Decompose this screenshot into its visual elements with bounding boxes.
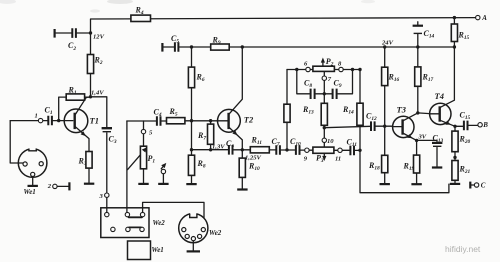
svg-text:3V: 3V	[418, 134, 427, 141]
svg-text:1,25V: 1,25V	[245, 155, 262, 162]
svg-text:3: 3	[99, 193, 104, 200]
svg-text:T4: T4	[435, 91, 444, 101]
svg-text:T2: T2	[244, 115, 254, 125]
svg-text:12V: 12V	[93, 34, 105, 41]
svg-text:T1: T1	[90, 116, 99, 126]
svg-text:We1: We1	[24, 188, 36, 196]
svg-text:We2: We2	[209, 229, 222, 237]
svg-text:1,3V: 1,3V	[212, 144, 225, 151]
svg-text:hifidiy.net: hifidiy.net	[445, 244, 481, 254]
svg-text:10: 10	[327, 138, 334, 145]
svg-text:C: C	[481, 182, 486, 190]
svg-text:24V: 24V	[381, 40, 394, 47]
svg-text:1: 1	[35, 113, 38, 120]
svg-text:2: 2	[47, 183, 52, 190]
svg-text:We2: We2	[153, 219, 166, 227]
svg-text:T3: T3	[397, 105, 407, 115]
svg-text:1,4V: 1,4V	[91, 90, 104, 97]
svg-text:B: B	[482, 121, 488, 129]
svg-text:We1: We1	[152, 246, 164, 254]
svg-text:A: A	[481, 14, 487, 22]
svg-text:11: 11	[335, 155, 341, 162]
